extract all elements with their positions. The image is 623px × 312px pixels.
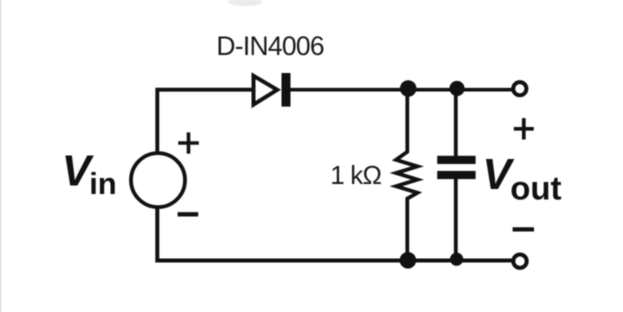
svg-text:D-IN4006: D-IN4006 xyxy=(216,31,323,61)
svg-text:out: out xyxy=(510,169,561,206)
svg-text:1 kΩ: 1 kΩ xyxy=(330,160,381,190)
svg-text:in: in xyxy=(89,166,117,201)
